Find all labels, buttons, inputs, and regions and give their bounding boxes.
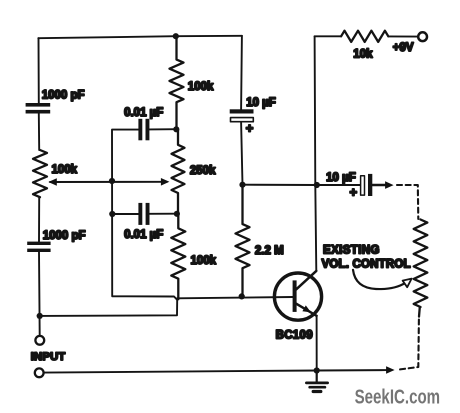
wire top right to 10k [315, 35, 419, 37]
svg-text:1000 pF: 1000 pF [43, 230, 86, 242]
wire emitter vertical [316, 316, 318, 371]
plus sign (output cap) [350, 184, 358, 199]
svg-text:+9V: +9V [393, 42, 414, 54]
svg-text:INPUT: INPUT [31, 351, 66, 363]
potentiometer existing volume control [414, 220, 428, 317]
plus sign (decoupling cap) [246, 121, 254, 136]
svg-text:EXISTING: EXISTING [323, 245, 380, 257]
value label 100k (top middle) [188, 81, 214, 93]
svg-text:100k: 100k [191, 255, 217, 267]
value label 250k [190, 165, 216, 177]
wire mid rail (collector node) [243, 184, 317, 186]
junction dot 9 [239, 293, 245, 299]
value label 0.01 uF (upper) [124, 107, 163, 119]
capacitor 1000 pF (upper) [26, 103, 51, 114]
transistor BC109 Q1 [274, 271, 321, 320]
svg-text:2.2 M: 2.2 M [255, 245, 284, 257]
value label 1000 pF (lower) [43, 230, 86, 242]
capacitor 0.01 uF (lower) [112, 203, 177, 225]
resistor 100k (top middle) [170, 36, 184, 128]
dashed wire vol control to bottom rail [399, 320, 419, 370]
arrowhead bottom rail right [386, 366, 395, 374]
junction dot 4 [109, 211, 115, 217]
dashed wire output to vol control (top) [397, 185, 418, 219]
emitter arrowhead [302, 305, 311, 312]
value label 10 uF (output) [326, 172, 356, 184]
svg-text:+: + [246, 121, 254, 136]
svg-text:10k: 10k [353, 48, 373, 60]
svg-text:250k: 250k [190, 165, 216, 177]
value label 10k [353, 48, 373, 60]
label BC109 [276, 330, 313, 342]
junction dot 1 [173, 33, 179, 39]
svg-text:+: + [350, 184, 358, 199]
arrowhead output [385, 181, 394, 189]
terminal circle +9V [418, 32, 427, 41]
label EXISTING VOL. CONTROL [322, 245, 411, 271]
potentiometer 100k (left, with wiper) [33, 150, 47, 197]
svg-text:VOL. CONTROL: VOL. CONTROL [322, 258, 411, 270]
svg-text:100k: 100k [188, 81, 214, 93]
value label 1000 pF (upper) [42, 90, 85, 102]
svg-text:10 µF: 10 µF [246, 97, 276, 109]
potentiometer 250k [172, 129, 185, 214]
resistor 100k (middle, lower) [171, 214, 185, 299]
terminal circle INPUT (lower) [35, 368, 44, 377]
value label 10 uF (decoupling) [246, 97, 276, 109]
svg-text:0.01 µF: 0.01 µF [124, 107, 163, 119]
wire base [177, 297, 293, 298]
wire supply decoupling branch (top) [241, 36, 242, 185]
capacitor 10 uF (output, polarized) [317, 174, 387, 196]
junction dot 2 [173, 126, 179, 132]
junction dot 5 [174, 211, 180, 217]
terminal circle INPUT (upper) [35, 336, 44, 345]
junction dot 10 [314, 367, 320, 373]
wire 0.01uF left loop [112, 130, 177, 300]
value label 0.01 uF (lower) [124, 229, 163, 241]
capacitor 10 uF (supply decoupling, polarized) [230, 109, 254, 121]
ground symbol [306, 371, 327, 392]
junction dot 7 [239, 182, 245, 188]
label INPUT [31, 351, 66, 363]
junction dot 6 [37, 313, 43, 319]
junction dot 8 [314, 182, 320, 188]
svg-text:BC109: BC109 [276, 330, 313, 342]
wire input junction to base node [40, 300, 178, 316]
arrowhead at 250k wiper (right) [161, 178, 170, 186]
watermark SeekIC.com [355, 387, 441, 409]
svg-text:10 µF: 10 µF [326, 172, 356, 184]
capacitor 0.01 uF (upper) [138, 119, 176, 141]
value label 2.2 M [255, 245, 284, 257]
value label 100k (left pot) [52, 164, 78, 176]
curved arrow to vol control wiper [353, 270, 412, 289]
svg-text:SeekIC.com: SeekIC.com [355, 387, 441, 409]
svg-text:1000 pF: 1000 pF [42, 90, 85, 102]
wire left vertical (input column) [39, 38, 40, 336]
resistor 10k [341, 31, 388, 42]
wire bottom ground rail [44, 370, 387, 373]
label +9V [393, 42, 414, 54]
wire top rail [38, 36, 242, 38]
wire collector vertical [315, 36, 317, 271]
resistor 2.2 M [236, 185, 250, 297]
junction dot 3 [109, 178, 115, 184]
svg-text:100k: 100k [52, 164, 78, 176]
svg-text:0.01 µF: 0.01 µF [124, 229, 163, 241]
capacitor 1000 pF (lower) [27, 242, 50, 252]
arrowhead at 100k wiper (left) [48, 178, 57, 186]
value label 100k (middle lower) [191, 255, 217, 267]
wiper link line with double arrows [50, 181, 167, 183]
